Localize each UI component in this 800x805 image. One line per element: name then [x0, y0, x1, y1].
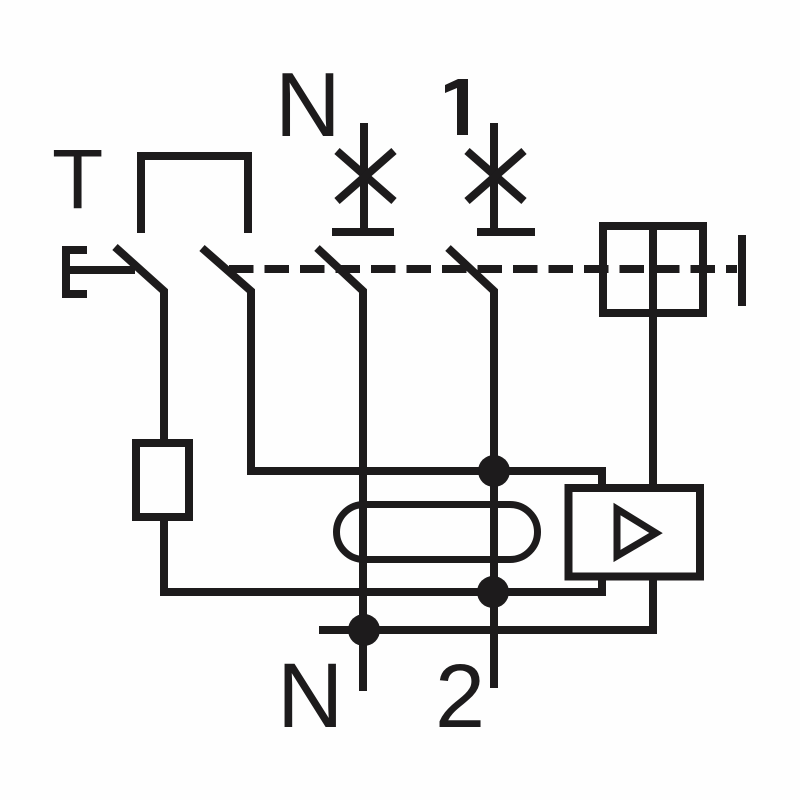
- svg-text:N: N: [275, 55, 341, 156]
- svg-text:T: T: [52, 132, 103, 226]
- svg-text:N: N: [277, 645, 343, 747]
- svg-text:2: 2: [435, 647, 485, 747]
